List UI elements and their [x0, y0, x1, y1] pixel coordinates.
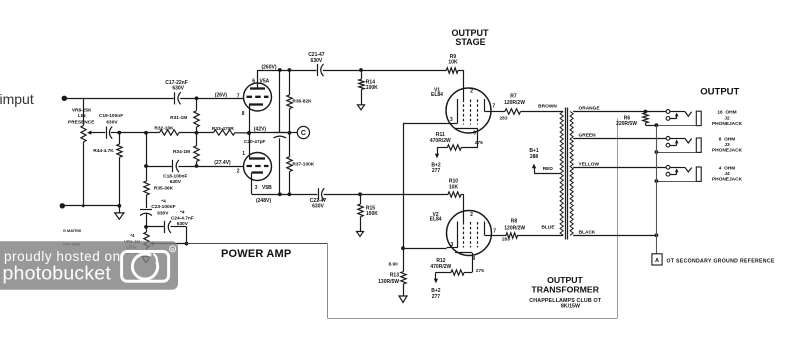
- svg-text:PRESENCE: PRESENCE: [68, 119, 95, 125]
- label G MATRIX: [63, 229, 82, 233]
- svg-text:2: 2: [470, 88, 473, 94]
- text imput: [0, 91, 34, 107]
- label 27.4V: [214, 160, 231, 166]
- svg-text:100K: 100K: [366, 211, 378, 217]
- label VR9: [124, 233, 141, 255]
- svg-text:STAGE: STAGE: [455, 37, 485, 47]
- svg-text:R34-1M: R34-1M: [173, 149, 190, 155]
- wire R7 to transformer BROWN: [521, 103, 564, 111]
- svg-text:R44-4.7K: R44-4.7K: [93, 148, 114, 154]
- svg-text:VR8-25K: VR8-25K: [72, 107, 92, 113]
- label B+1: [529, 148, 539, 160]
- svg-text:R: R: [171, 247, 174, 252]
- wire rail x=289.4: [288, 70, 292, 194]
- svg-text:LIN: LIN: [78, 113, 86, 119]
- svg-text:R37-100K: R37-100K: [292, 161, 314, 167]
- capacitor C17: [165, 80, 188, 105]
- capacitor C22: [310, 188, 327, 209]
- svg-text:EL84: EL84: [431, 92, 443, 98]
- svg-text:imput: imput: [0, 91, 34, 107]
- svg-text:ORANGE: ORANGE: [579, 106, 601, 112]
- resistor R14: [358, 70, 379, 110]
- svg-text:630V: 630V: [312, 204, 324, 210]
- resistor R32: [154, 126, 179, 136]
- label 283 V2: [502, 236, 510, 242]
- wire input grid rail y=98: [64, 98, 243, 100]
- resistor R7: [504, 94, 525, 115]
- label 26V: [215, 92, 228, 98]
- wire grid2 rail y=166: [144, 164, 244, 168]
- connector J4 phonejack: [655, 165, 702, 183]
- resistor R15: [357, 194, 379, 236]
- resistor R11: [430, 132, 461, 150]
- capacitor C18: [163, 160, 187, 185]
- resistor R9: [446, 54, 458, 73]
- svg-text:TRANSFORMER: TRANSFORMER: [531, 285, 599, 295]
- wire V1 plate out: [485, 111, 505, 113]
- node C: [289, 126, 309, 138]
- wire V5A cathode to V5B plate: [247, 108, 251, 155]
- svg-text:*4: *4: [130, 233, 135, 238]
- svg-text:8.90: 8.90: [389, 261, 399, 267]
- pentode V1: [446, 88, 491, 133]
- svg-text:C20-47pF: C20-47pF: [244, 139, 266, 145]
- capacitor C24: [165, 210, 194, 234]
- svg-text:R7: R7: [510, 94, 517, 100]
- label 42V: [254, 127, 267, 133]
- wire R11 to B+2: [435, 148, 447, 159]
- svg-text:8: 8: [242, 111, 245, 117]
- label CHAPPELLAMPS: [529, 298, 601, 310]
- svg-text:10K: 10K: [449, 185, 459, 191]
- wire x=146 branch: [146, 133, 148, 208]
- svg-text:7: 7: [492, 104, 495, 110]
- svg-text:OT SECONDARY GROUND REFERENCE: OT SECONDARY GROUND REFERENCE: [667, 258, 775, 264]
- svg-text:2: 2: [237, 169, 240, 175]
- wire rail x=279.8 upper: [279, 70, 281, 133]
- svg-text:R35-36K: R35-36K: [154, 186, 174, 192]
- watermark photobucket: [0, 241, 178, 289]
- svg-text:C18-100nF: C18-100nF: [163, 173, 187, 179]
- label VR8: [68, 107, 95, 125]
- wire rail y=133: [119, 131, 251, 135]
- svg-text:J2: J2: [724, 115, 730, 121]
- resistor R10: [448, 179, 461, 198]
- resistor R12: [430, 258, 464, 275]
- label B+2 V1: [431, 163, 441, 175]
- svg-text:A: A: [655, 258, 659, 264]
- svg-text:7: 7: [237, 94, 240, 100]
- wire R9 to V1 grid: [458, 70, 464, 100]
- label POWER AMP: [221, 248, 291, 260]
- wire R10 to V2 grid: [461, 194, 464, 222]
- svg-text:(260V): (260V): [261, 65, 276, 71]
- svg-text:277: 277: [432, 294, 441, 300]
- label 260V: [261, 65, 276, 71]
- wire B+1 red center tap: [532, 164, 560, 174]
- wire R8 to transformer BLUE: [518, 225, 564, 236]
- svg-text:R32-10K: R32-10K: [154, 126, 174, 132]
- svg-text:630V: 630V: [106, 119, 118, 125]
- resistor R31: [170, 96, 199, 132]
- wire C23 to node: [144, 213, 148, 228]
- svg-text:630V: 630V: [157, 210, 169, 216]
- capacitor C21: [308, 52, 325, 76]
- wire VR8 wiper: [87, 131, 105, 135]
- label 8.90: [389, 261, 399, 267]
- svg-text:3: 3: [255, 185, 258, 191]
- svg-text:630V: 630V: [177, 221, 189, 227]
- svg-text:R8: R8: [511, 219, 518, 225]
- svg-text:16 OHM: 16 OHM: [717, 110, 736, 116]
- label OUTPUT STAGE: [452, 28, 490, 47]
- wire VR9 wiper: [149, 242, 186, 246]
- wire feedback right vertical: [617, 119, 619, 319]
- svg-text:C23-100nF: C23-100nF: [151, 204, 175, 210]
- wire feedback y=243.6: [187, 243, 328, 245]
- svg-text:BLUE: BLUE: [541, 225, 555, 231]
- svg-text:C: C: [301, 130, 306, 137]
- pentode V2: [447, 211, 492, 256]
- svg-text:J3: J3: [724, 142, 730, 148]
- svg-text:POWER AMP: POWER AMP: [221, 248, 291, 260]
- svg-text:C19-100nF: C19-100nF: [99, 113, 123, 119]
- pentode V1 internals: [446, 99, 484, 129]
- label 275 V1: [475, 140, 483, 146]
- resistor R6: [616, 112, 656, 127]
- wire V2 cathode pin9: [464, 253, 473, 273]
- svg-text:PHONEJACK: PHONEJACK: [712, 121, 743, 127]
- wire BLACK: [573, 230, 658, 238]
- label OUTPUT: [700, 87, 739, 98]
- svg-text:630V: 630V: [172, 86, 184, 92]
- svg-text:630V: 630V: [170, 179, 182, 185]
- wire C24 down to feedback node: [185, 227, 189, 246]
- ground input: [115, 206, 124, 219]
- resistor R13: [378, 248, 407, 302]
- svg-text:277: 277: [432, 168, 441, 174]
- resistor R44: [93, 133, 122, 206]
- svg-text:R31-1M: R31-1M: [170, 115, 187, 121]
- resistor R33: [212, 126, 235, 135]
- svg-text:275: 275: [476, 268, 484, 274]
- wire feedback left vertical: [327, 244, 329, 318]
- connector J2 phonejack: [655, 110, 702, 128]
- svg-text:470R/2W: 470R/2W: [430, 138, 451, 144]
- label J2: [712, 110, 743, 127]
- transformer core: [566, 108, 568, 240]
- svg-text:630V: 630V: [311, 58, 323, 64]
- svg-text:GREEN: GREEN: [579, 133, 597, 139]
- label V2 pins: [451, 212, 497, 262]
- resistor R37: [287, 157, 315, 172]
- wire depth cap rail y=227: [146, 226, 187, 228]
- wire R12 to B+2: [434, 272, 451, 283]
- svg-text:6: 6: [252, 78, 255, 84]
- svg-text:V5A: V5A: [260, 78, 270, 84]
- svg-text:1: 1: [242, 151, 245, 157]
- svg-text:BLACK: BLACK: [579, 230, 596, 236]
- resistor R8: [504, 219, 525, 239]
- svg-text:PHONEJACK: PHONEJACK: [712, 148, 743, 154]
- resistor R36: [287, 95, 312, 109]
- svg-text:(42V): (42V): [254, 127, 267, 133]
- wire input ground rail y=205: [62, 204, 121, 208]
- label 283 V1: [500, 116, 508, 122]
- triode V5B plate: [249, 155, 265, 158]
- svg-text:8K/15W: 8K/15W: [561, 303, 580, 309]
- svg-text:120R/2W: 120R/2W: [504, 226, 525, 232]
- svg-text:R12: R12: [436, 258, 445, 264]
- svg-text:G MATRIX: G MATRIX: [63, 229, 82, 233]
- svg-text:YELLOW: YELLOW: [579, 162, 600, 168]
- capacitor C23: [140, 199, 176, 217]
- label POT AND: [63, 242, 80, 246]
- svg-text:PHONEJACK: PHONEJACK: [712, 177, 743, 183]
- triode V5A cathode: [249, 104, 263, 108]
- wire V1 cathode pin9: [461, 128, 477, 147]
- wire plate rail y=70: [258, 68, 447, 72]
- svg-text:275: 275: [475, 140, 483, 146]
- svg-text:photobucket: photobucket: [3, 263, 112, 285]
- capacitor C19: [99, 113, 123, 139]
- svg-text:RED: RED: [543, 166, 554, 172]
- pentode V2 internals: [447, 222, 485, 253]
- label V5A pins: [237, 78, 270, 117]
- svg-text:B+2: B+2: [431, 288, 441, 294]
- node input top terminal: [62, 96, 67, 101]
- wire V2 plate out: [485, 235, 507, 237]
- label B+2 V2: [431, 288, 441, 300]
- svg-text:2: 2: [470, 212, 473, 218]
- svg-text:288: 288: [530, 154, 539, 160]
- inductor OT secondary winding: [570, 112, 573, 236]
- inductor OT primary winding: [560, 112, 563, 236]
- wire rail x=279.8 lower: [279, 138, 281, 194]
- svg-text:8 OHM: 8 OHM: [719, 136, 736, 142]
- label J3: [712, 136, 743, 153]
- svg-text:220R/5W: 220R/5W: [616, 121, 637, 127]
- triode V5B: [244, 153, 272, 181]
- svg-text:V5B: V5B: [262, 185, 272, 191]
- svg-text:10K: 10K: [448, 60, 458, 66]
- svg-text:EL84: EL84: [430, 217, 442, 223]
- label V5B pins: [237, 151, 272, 191]
- svg-text:OUTPUT: OUTPUT: [700, 87, 739, 98]
- svg-text:100K: 100K: [366, 85, 378, 91]
- svg-text:(26V): (26V): [215, 92, 228, 98]
- svg-text:4 OHM: 4 OHM: [719, 165, 736, 171]
- svg-text:OUTPUT: OUTPUT: [547, 275, 583, 285]
- label V2: [430, 212, 442, 223]
- label 248V: [256, 198, 271, 204]
- svg-text:*4: *4: [180, 210, 185, 216]
- label RED: [543, 166, 554, 172]
- triode V5A grid: [247, 96, 269, 98]
- triode V5B grid: [247, 165, 269, 167]
- potentiometer VR9: [142, 227, 150, 263]
- svg-text:R33-470R: R33-470R: [212, 126, 234, 132]
- svg-text:*4: *4: [161, 199, 166, 205]
- svg-text:283: 283: [500, 116, 508, 122]
- resistor R34: [173, 133, 199, 166]
- svg-text:470R/2W: 470R/2W: [430, 264, 451, 270]
- node A ground reference: [652, 254, 662, 265]
- wire cathode rail y=194.3: [252, 179, 448, 196]
- svg-text:R13: R13: [390, 273, 399, 279]
- svg-text:BROWN: BROWN: [538, 103, 557, 109]
- connector J3 phonejack: [655, 136, 702, 154]
- svg-text:7: 7: [493, 228, 496, 234]
- wire jack ground bus: [656, 125, 658, 254]
- wire YELLOW: [573, 162, 666, 168]
- svg-text:(27.4V): (27.4V): [214, 160, 231, 166]
- label J4: [712, 165, 743, 182]
- node input bottom terminal: [60, 203, 65, 208]
- svg-text:3: 3: [451, 242, 454, 248]
- svg-text:9: 9: [473, 130, 476, 136]
- svg-text:J4: J4: [724, 171, 730, 177]
- capacitor C20: [244, 133, 286, 146]
- svg-text:R36-82K: R36-82K: [292, 98, 312, 104]
- wire V2 grid wire: [403, 248, 447, 250]
- svg-text:3: 3: [450, 117, 453, 123]
- wire V1 grid rail x=403: [401, 123, 446, 250]
- svg-text:120R/2W: 120R/2W: [504, 100, 525, 106]
- svg-text:(248V): (248V): [256, 198, 271, 204]
- wire GREEN: [573, 133, 666, 139]
- label OUTPUT TRANSFORMER: [531, 275, 599, 295]
- wire feedback bottom: [328, 318, 618, 320]
- wire C19 to R44 node: [111, 131, 121, 135]
- label V1 pins: [450, 88, 496, 136]
- label 275 V2: [476, 268, 484, 274]
- triode V5A plate: [250, 70, 265, 89]
- triode V5B cathode: [252, 173, 264, 180]
- potentiometer VR8: [81, 98, 86, 206]
- svg-text:130R/5W: 130R/5W: [378, 279, 399, 285]
- resistor R35: [144, 181, 174, 195]
- svg-text:C24-4.7nF: C24-4.7nF: [171, 215, 194, 221]
- wire ORANGE: [573, 106, 666, 114]
- wire grid rail to C20 node: [249, 132, 289, 134]
- label V1: [431, 87, 443, 98]
- triode V5A: [244, 83, 272, 111]
- label OT SECONDARY GROUND REFERENCE: [667, 258, 775, 264]
